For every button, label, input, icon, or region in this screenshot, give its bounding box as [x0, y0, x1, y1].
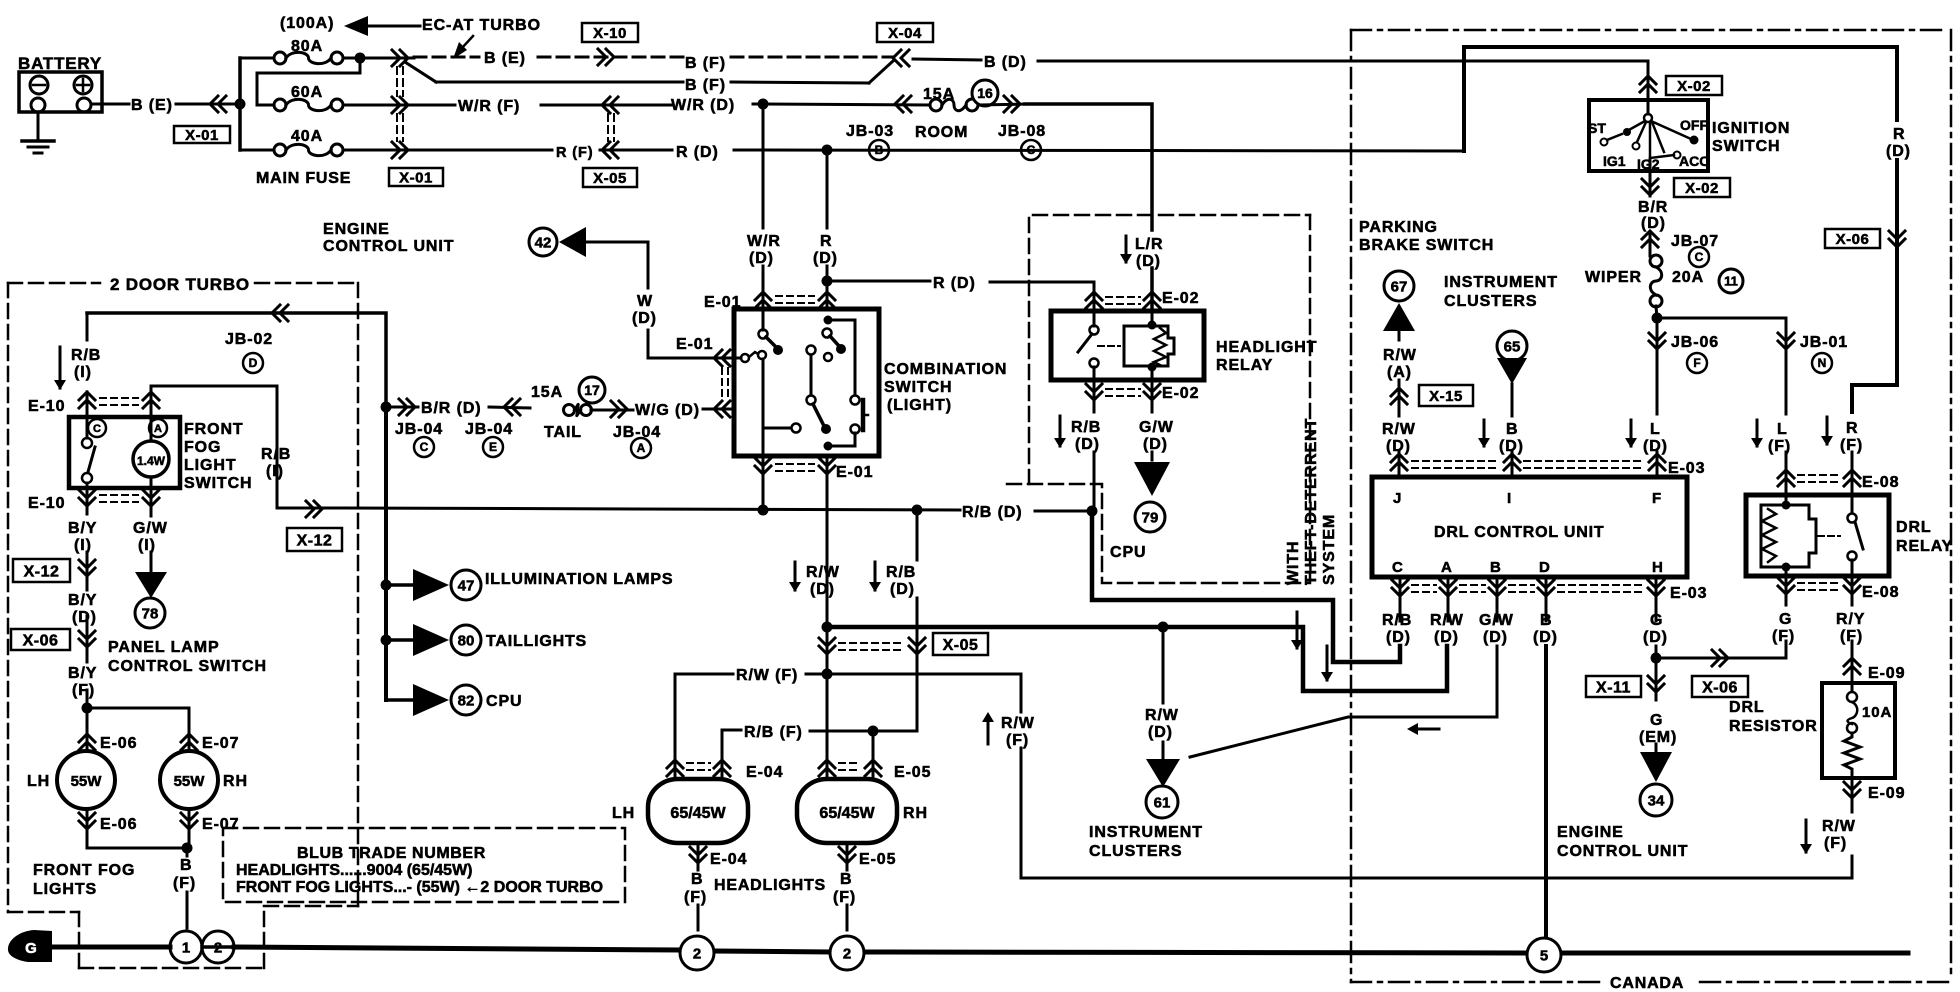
label box X-11 — [1586, 676, 1641, 697]
label box X-06 (left) — [11, 629, 70, 650]
wire R/B(F) row — [722, 730, 917, 731]
wire fog split — [87, 708, 189, 751]
svg-text:B/Y: B/Y — [68, 520, 97, 537]
svg-text:RESISTOR: RESISTOR — [1729, 718, 1818, 735]
label G (D) pin H — [1643, 612, 1668, 646]
svg-text:B: B — [1490, 559, 1502, 576]
svg-text:(D): (D) — [72, 609, 97, 626]
svg-text:X-05: X-05 — [593, 170, 627, 187]
connector E-07 top — [181, 734, 197, 750]
svg-text:R/W: R/W — [1001, 715, 1035, 732]
svg-text:E-09: E-09 — [1868, 785, 1905, 802]
arrow to 61 — [1146, 759, 1180, 787]
svg-text:42: 42 — [535, 234, 552, 251]
connector X-11 chevron — [1648, 676, 1664, 692]
label G/W (I) — [133, 520, 168, 554]
label B (E) dashed row — [484, 50, 526, 67]
pin A — [1441, 559, 1453, 576]
label B (F) fog — [173, 857, 196, 892]
label E-01 top — [704, 294, 741, 311]
svg-text:(D): (D) — [1434, 629, 1459, 646]
svg-text:(A): (A) — [1387, 364, 1412, 381]
svg-text:E-08: E-08 — [1862, 474, 1899, 491]
connector JB-01 chevron — [1778, 333, 1794, 349]
headlight relay box — [1051, 311, 1204, 380]
label R/W (D) pin A — [1430, 612, 1464, 646]
label TAIL — [544, 424, 582, 441]
svg-text:LIGHTS: LIGHTS — [33, 881, 97, 898]
node R/B headlight branch — [912, 505, 923, 516]
label E-06 bottom — [100, 816, 137, 833]
label R/W (F) up — [1001, 715, 1035, 749]
wire B/Y(D) — [86, 616, 89, 662]
svg-text:DRL: DRL — [1896, 519, 1932, 536]
svg-text:G: G — [25, 940, 37, 957]
svg-text:1.4W: 1.4W — [137, 454, 166, 468]
svg-text:ILLUMINATION LAMPS: ILLUMINATION LAMPS — [485, 571, 673, 588]
svg-text:11: 11 — [1724, 274, 1738, 289]
svg-text:(D): (D) — [1483, 629, 1508, 646]
svg-text:X-06: X-06 — [23, 632, 59, 649]
svg-text:60A: 60A — [291, 84, 323, 101]
svg-text:R: R — [1893, 126, 1905, 143]
svg-text:W/R: W/R — [747, 233, 781, 250]
svg-text:HEADLIGHT: HEADLIGHT — [1216, 339, 1317, 356]
label E-09 top — [1868, 665, 1905, 682]
fuse TAIL 15A — [564, 404, 592, 415]
wire B(F) solid — [405, 61, 893, 83]
label FRONT FOG LIGHT SWITCH — [184, 421, 253, 492]
wire R/Y(F) — [1851, 576, 1854, 690]
fog lamp RH — [160, 751, 218, 809]
svg-text:16: 16 — [977, 85, 993, 101]
svg-text:E-07: E-07 — [202, 816, 239, 833]
wire R(D) risers right — [1464, 47, 1897, 412]
label L/R (D) — [1135, 236, 1163, 270]
svg-text:E-04: E-04 — [710, 851, 747, 868]
svg-text:X-11: X-11 — [1596, 679, 1631, 696]
connector E-06 top — [79, 734, 95, 750]
svg-text:2: 2 — [693, 945, 701, 962]
svg-text:E-02: E-02 — [1162, 385, 1199, 402]
label HEADLIGHT RELAY — [1216, 339, 1317, 374]
pin J — [1393, 490, 1402, 507]
svg-text:CONTROL UNIT: CONTROL UNIT — [1557, 843, 1688, 860]
svg-text:X-04: X-04 — [888, 25, 922, 42]
connector X-02 top chevron — [1640, 76, 1656, 92]
svg-text:R/W: R/W — [1145, 707, 1179, 724]
circled 5 (ground) — [1527, 938, 1561, 972]
wire pin A — [1447, 577, 1450, 621]
label W (D) — [632, 293, 657, 327]
circled 67 — [1384, 271, 1414, 301]
fog lamp LH — [57, 751, 115, 809]
svg-text:A: A — [637, 441, 646, 455]
svg-text:DRL CONTROL UNIT: DRL CONTROL UNIT — [1434, 524, 1604, 541]
svg-text:JB-08: JB-08 — [998, 123, 1046, 140]
label LH headlight — [612, 805, 635, 822]
label box X-12 (right) — [287, 528, 342, 551]
wire fog switch A to R/B — [151, 386, 277, 478]
wire L/R drop from room fuse — [1025, 104, 1152, 311]
svg-text:BATTERY: BATTERY — [18, 54, 102, 73]
wire R/W(F) from resistor — [1851, 778, 1854, 878]
svg-text:JB-03: JB-03 — [846, 123, 894, 140]
wire LH headlight feeds — [675, 674, 722, 779]
svg-text:(I): (I) — [138, 537, 156, 554]
wire wiper fuse out — [1656, 306, 1657, 318]
label E-02 top — [1162, 290, 1199, 307]
label R/W (D) 61 — [1145, 707, 1179, 741]
label B/Y (D) — [68, 592, 97, 626]
arrow 80 — [413, 624, 449, 656]
svg-text:B (E): B (E) — [484, 50, 526, 67]
svg-text:SYSTEM: SYSTEM — [1321, 514, 1338, 585]
DRL control unit box — [1372, 477, 1687, 577]
connector E-02 bottom chevrons — [1086, 384, 1160, 400]
svg-text:DRL: DRL — [1729, 699, 1765, 716]
svg-text:E-10: E-10 — [28, 495, 65, 512]
label L (F) — [1768, 421, 1791, 455]
svg-text:(D): (D) — [749, 250, 774, 267]
svg-text:65: 65 — [1504, 338, 1521, 355]
label W/G (D) — [635, 402, 700, 419]
label 15A (tail) — [531, 384, 563, 401]
label B (D) pin D — [1533, 612, 1558, 646]
label FRONT FOG LIGHTS 55W — [236, 879, 603, 896]
circled 2 RH — [830, 936, 864, 970]
label CANADA — [1610, 975, 1684, 992]
label 2 DOOR TURBO — [110, 275, 250, 294]
label R (D) vertical — [813, 233, 838, 267]
wire pin H — [1655, 577, 1658, 700]
label JB-07 — [1671, 233, 1719, 267]
label R/B (D) mid — [962, 504, 1023, 521]
wire B/R(D) — [1649, 171, 1652, 256]
wire R/B(I) fog feed — [86, 313, 89, 417]
wire B/Y(I) — [86, 488, 89, 590]
label DRL RESISTOR — [1729, 699, 1818, 735]
svg-text:G/W: G/W — [133, 520, 168, 537]
svg-text:(D): (D) — [1641, 215, 1666, 232]
label E-06 top — [100, 735, 137, 752]
svg-text:SWITCH: SWITCH — [884, 379, 953, 396]
arrow 82 — [413, 684, 449, 716]
svg-text:TAIL: TAIL — [544, 424, 582, 441]
svg-text:LIGHT: LIGHT — [184, 457, 237, 474]
svg-text:JB-02: JB-02 — [225, 331, 273, 348]
svg-text:R/W: R/W — [1382, 421, 1416, 438]
wire L(F) — [1785, 352, 1788, 495]
svg-text:R: R — [1846, 420, 1858, 437]
svg-text:CANADA: CANADA — [1610, 975, 1684, 992]
svg-text:LH: LH — [612, 805, 635, 822]
wire RH headlight feeds — [827, 674, 873, 779]
label box X-15 — [1419, 385, 1473, 406]
label R (D) branch — [933, 275, 976, 292]
wire R(F) — [343, 149, 552, 152]
wire B(F) fog — [186, 848, 189, 928]
label box X-12 (left) — [13, 559, 70, 582]
label E-10 top — [28, 398, 65, 415]
wire fog lamps join — [87, 809, 189, 848]
connector E-04 bottom — [690, 847, 706, 863]
label DRL CONTROL UNIT — [1434, 524, 1604, 541]
connector JB-06 chevron — [1649, 333, 1665, 349]
connector X-04 chevron — [893, 50, 909, 66]
svg-text:THEFT-DETERRENT: THEFT-DETERRENT — [1303, 418, 1320, 585]
svg-text:(F): (F) — [684, 889, 707, 906]
label PARKING BRAKE SWITCH — [1359, 219, 1494, 254]
label ENGINE CONTROL UNIT (34) — [1557, 824, 1688, 860]
label R/B (F) — [744, 724, 803, 741]
label G/W (D) pin B — [1479, 612, 1514, 646]
wire B/R(D) row — [386, 407, 530, 408]
circled 80 — [451, 625, 481, 655]
theft-deterrent dashed box — [1005, 215, 1310, 583]
svg-text:80: 80 — [458, 632, 475, 649]
headlight RH — [797, 779, 897, 843]
svg-text:J: J — [1393, 490, 1402, 507]
svg-text:E-01: E-01 — [836, 464, 873, 481]
svg-text:B: B — [691, 871, 703, 888]
svg-text:E-06: E-06 — [100, 735, 137, 752]
label JB-08 — [998, 123, 1046, 140]
connector JB-03 chevron — [895, 96, 911, 112]
flow arrow R/W(F) up — [982, 712, 994, 744]
svg-text:A: A — [154, 423, 162, 435]
label G/W (D) relay — [1139, 419, 1174, 453]
wire R/W(F) return — [1021, 674, 1852, 878]
svg-text:40A: 40A — [291, 128, 323, 145]
label R (D) right — [1886, 126, 1911, 160]
svg-text:D: D — [249, 356, 258, 370]
flow arrow R/B(D) — [1054, 416, 1066, 448]
node fog split — [82, 703, 93, 714]
svg-text:INSTRUMENT: INSTRUMENT — [1444, 274, 1558, 291]
svg-text:(I): (I) — [74, 364, 92, 381]
ignition switch box — [1589, 100, 1708, 171]
svg-text:IG2: IG2 — [1637, 156, 1660, 172]
svg-text:E-02: E-02 — [1162, 290, 1199, 307]
svg-text:15A: 15A — [923, 86, 955, 103]
svg-text:X-05: X-05 — [943, 637, 979, 654]
ground (battery) — [22, 141, 54, 153]
connector E-09 top chevron — [1844, 658, 1860, 674]
label JB-04 (A) — [613, 424, 661, 458]
connector E-01 left dashed link — [722, 368, 728, 399]
svg-text:(D): (D) — [810, 581, 835, 598]
svg-text:FRONT: FRONT — [184, 421, 244, 438]
wire R/W(F) row — [675, 673, 1021, 676]
node G(D) split — [1651, 653, 1662, 664]
svg-text:FRONT FOG LIGHTS...- (55W) ←2: FRONT FOG LIGHTS...- (55W) ←2 DOOR TURBO — [236, 879, 603, 896]
label R/W (D) J — [1382, 421, 1416, 455]
svg-text:H: H — [1652, 559, 1664, 576]
label B (D) — [984, 54, 1027, 71]
circled 79 — [1135, 502, 1165, 532]
svg-text:15A: 15A — [531, 384, 563, 401]
svg-text:E: E — [489, 440, 497, 454]
svg-text:L: L — [1650, 421, 1661, 438]
label box X-05 — [583, 168, 637, 187]
wire B(D) to ignition — [913, 59, 1648, 61]
connector JB-04 A chevron — [611, 401, 627, 417]
label box X-05 (headlight) — [933, 633, 988, 655]
wire W/G to comb switch — [703, 408, 734, 411]
svg-text:(F): (F) — [833, 889, 856, 906]
svg-text:(D): (D) — [1136, 253, 1161, 270]
wire B/Y(F) — [86, 690, 89, 708]
node illumination bus top — [381, 402, 392, 413]
svg-text:2 DOOR TURBO: 2 DOOR TURBO — [110, 275, 250, 294]
wire W/R(D) to comb switch — [762, 104, 765, 309]
junction block B circle — [869, 140, 889, 160]
arrow into 42 — [559, 227, 586, 257]
pin F — [1652, 490, 1662, 507]
fuse ROOM 15A — [923, 86, 978, 111]
connector E-08 bottom chevrons — [1778, 578, 1860, 594]
connector E-05 top chevrons — [819, 760, 881, 776]
svg-text:L/R: L/R — [1135, 236, 1163, 253]
svg-text:X-06: X-06 — [1836, 231, 1870, 248]
connector E-06 bottom — [79, 813, 95, 829]
svg-text:65/45W: 65/45W — [670, 805, 726, 822]
DRL relay internals — [1761, 495, 1863, 576]
label E-08 bottom — [1862, 584, 1899, 601]
label G (F) — [1772, 611, 1795, 645]
wire W(D) — [586, 242, 734, 358]
connector E-03 bottom chevrons — [1392, 580, 1664, 596]
svg-text:B/Y: B/Y — [68, 592, 97, 609]
wire G(F) — [1785, 576, 1788, 658]
node R/W X-05 — [822, 622, 833, 633]
circled 16 — [972, 80, 998, 106]
wire branch 82 — [386, 698, 413, 702]
fuse 80A — [240, 38, 414, 64]
svg-text:FRONT FOG: FRONT FOG — [33, 862, 135, 879]
flow arrow staircase 2 — [1321, 646, 1333, 682]
svg-text:R/B: R/B — [71, 347, 101, 364]
fuse 40A — [240, 128, 343, 156]
svg-text:(D): (D) — [1533, 629, 1558, 646]
svg-text:R: R — [820, 233, 832, 250]
arrow to 79 — [1134, 462, 1170, 496]
label ILLUMINATION LAMPS — [485, 571, 673, 588]
label box X-04 — [877, 23, 933, 42]
flow arrow R/B(I) — [54, 347, 66, 390]
svg-text:TAILLIGHTS: TAILLIGHTS — [486, 633, 587, 650]
EC-AT variant arrow — [453, 36, 473, 59]
label E-09 bottom — [1868, 785, 1905, 802]
ground bus wire — [52, 947, 1908, 953]
svg-text:ACC: ACC — [1679, 153, 1709, 169]
svg-text:R (F): R (F) — [556, 145, 594, 161]
svg-text:(F): (F) — [1768, 438, 1791, 455]
connector E-04 top chevrons — [667, 760, 730, 776]
label box X-01 (fuse out) — [389, 168, 443, 186]
circled 65 — [1497, 331, 1527, 361]
front fog light switch internals — [82, 417, 169, 488]
wire R/W to DRL staircase — [827, 627, 1447, 691]
svg-text:17: 17 — [584, 382, 600, 398]
svg-text:B (F): B (F) — [685, 55, 726, 72]
label WITH THEFT-DETERRENT SYSTEM — [1285, 418, 1338, 585]
headlight LH — [648, 779, 748, 843]
svg-text:D: D — [1539, 559, 1551, 576]
svg-text:BRAKE SWITCH: BRAKE SWITCH — [1359, 237, 1494, 254]
node R/B at comb left leg — [758, 505, 769, 516]
wire comb right leg down — [826, 456, 829, 674]
svg-text:CPU: CPU — [486, 693, 522, 710]
svg-text:(I): (I) — [74, 537, 92, 554]
svg-text:A: A — [1441, 559, 1453, 576]
DRL relay box — [1746, 495, 1889, 576]
svg-text:ROOM: ROOM — [915, 124, 968, 141]
svg-text:(D): (D) — [632, 310, 657, 327]
svg-text:E-01: E-01 — [704, 294, 741, 311]
label BLUB TRADE NUMBER — [297, 845, 486, 862]
svg-text:X-15: X-15 — [1429, 388, 1463, 405]
wire after tail fuse — [591, 409, 633, 412]
svg-text:B (E): B (E) — [131, 97, 173, 114]
wire branch 80 — [386, 638, 413, 642]
wire R(D) to comb switch — [826, 150, 829, 309]
wire R(F) to relay — [1851, 452, 1854, 495]
svg-text:RELAY: RELAY — [1896, 538, 1953, 555]
junction block C circle (JB-08) — [1021, 140, 1041, 160]
svg-text:E-01: E-01 — [676, 336, 713, 353]
node after 80A fuse — [355, 53, 366, 64]
svg-text:E-06: E-06 — [100, 816, 137, 833]
svg-text:R/W (F): R/W (F) — [736, 667, 798, 684]
label B (F) RH — [833, 871, 856, 906]
wire 80A-to-60A loop — [257, 58, 360, 105]
label E-01 left — [676, 336, 713, 353]
label R (F) — [556, 145, 594, 161]
pin B — [1490, 559, 1502, 576]
connector X-01 (battery side) chevron — [210, 96, 226, 112]
connector X-12 chevron — [306, 501, 322, 517]
combination switch box — [734, 309, 879, 456]
label JB-06 — [1671, 334, 1719, 373]
svg-text:2: 2 — [843, 945, 851, 962]
wire pin D to ground 5 — [1545, 577, 1548, 938]
wire R/W(D) to J — [1398, 380, 1401, 477]
svg-text:B/R: B/R — [1638, 199, 1668, 216]
svg-text:(D): (D) — [1643, 438, 1668, 455]
pin D — [1539, 559, 1551, 576]
wire G/W diagonal — [1190, 717, 1497, 757]
circled 17 — [579, 377, 605, 403]
connector X-06 chevron (G wire) — [1712, 650, 1728, 666]
arrow 47 — [413, 569, 449, 601]
label B (F) LH — [684, 871, 707, 906]
label INSTRUMENT CLUSTERS (61) — [1089, 824, 1203, 860]
svg-text:(100A): (100A) — [280, 15, 334, 32]
label R/Y (F) — [1836, 611, 1865, 645]
label L (D) — [1643, 421, 1668, 455]
circled 82 — [451, 685, 481, 715]
svg-text:W/R (D): W/R (D) — [671, 97, 735, 114]
label R/B (D) comb — [886, 564, 916, 598]
connector E-01 top chevrons — [755, 292, 835, 308]
svg-text:E-05: E-05 — [894, 764, 931, 781]
svg-text:SWITCH: SWITCH — [184, 475, 253, 492]
label E-05 bottom — [859, 851, 896, 868]
connector JB-02 chevron — [272, 305, 288, 321]
svg-text:RH: RH — [223, 773, 248, 790]
